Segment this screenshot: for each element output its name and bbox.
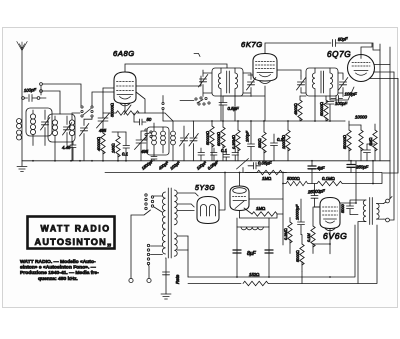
wire 6A8G anode2 diagonal	[136, 92, 145, 113]
wire 6K7G cathode	[223, 86, 265, 121]
wire IFT1 secondary to 6K7G grid	[248, 74, 253, 76]
resistor R 1Mohm avc	[245, 170, 287, 174]
wire output cathode junction	[302, 272, 330, 284]
IFT1 core	[227, 71, 230, 93]
box A RF tuned circuit	[26, 108, 52, 136]
potentiometer 50000ohm	[103, 105, 145, 115]
capacitor C 100pF det2	[198, 148, 205, 161]
switch S2 contacts osc	[145, 129, 152, 140]
capacitor C 0.05	[70, 142, 76, 161]
svg-text:0.1: 0.1	[122, 152, 129, 157]
capacitor C 100pF avc	[248, 121, 255, 161]
wire 6A8G plate to IFT1	[136, 76, 201, 86]
svg-text:495: 495	[99, 128, 107, 133]
svg-text:Produzione 1940-41. — Media fr: Produzione 1940-41. — Media fre-	[20, 270, 99, 276]
ground symbol mains	[161, 294, 171, 299]
svg-text:50000Ω: 50000Ω	[205, 131, 210, 145]
wire bias node	[112, 131, 126, 133]
filter choke L8	[237, 218, 269, 230]
wire heater bus2	[188, 283, 241, 285]
PT primary winding	[162, 192, 165, 254]
IFT1 secondary coil	[235, 68, 238, 96]
variable capacitor 495 section2	[135, 131, 148, 161]
capacitor C 0.1 det	[223, 150, 230, 161]
power transformer T4 core	[168, 188, 171, 258]
antenna coil L1	[17, 119, 22, 141]
svg-text:6K7G: 6K7G	[241, 40, 263, 49]
capacitor C 4uF	[308, 166, 316, 169]
capacitor C 5000 tone	[347, 200, 359, 215]
ground symbol left	[17, 161, 27, 172]
wire hook top	[194, 54, 200, 57]
wire trimmer CT1	[44, 110, 46, 146]
resistor R 1Mohm eye	[252, 212, 283, 216]
IFT2 primary coil	[312, 68, 315, 96]
switch S5 mains contacts	[147, 244, 162, 264]
svg-text:1MΩ: 1MΩ	[368, 138, 373, 146]
resistor R 10000ohm avc	[286, 121, 290, 161]
capacitor C det coupling	[331, 96, 343, 102]
svg-text:350Ω: 350Ω	[257, 139, 262, 148]
coil L3	[52, 116, 57, 161]
wire x283 down	[282, 173, 284, 246]
svg-text:6A8G: 6A8G	[113, 49, 135, 58]
speaker terminals	[384, 197, 393, 222]
wire trimmer CT8	[301, 76, 306, 93]
svg-text:Rete: Rete	[175, 274, 180, 284]
wire PT heater tap	[177, 236, 188, 277]
IF transformer T2 box	[306, 68, 338, 96]
resistor R 50000ohm screen	[210, 121, 214, 161]
wire 6V6G grid	[314, 206, 321, 208]
resistor R 5000ohm fb	[283, 181, 308, 185]
wire IFT2 secondary to 6Q7G	[330, 87, 354, 100]
junction dots bus	[32, 160, 127, 162]
variable capacitor 495 section1	[97, 88, 110, 133]
capacitor C 50pF	[333, 40, 381, 51]
wire fb right corner	[373, 161, 382, 184]
resistor R 152ohm	[243, 225, 377, 286]
wire IFT2 stubs down	[315, 96, 330, 121]
capacitor C 250pF	[347, 165, 355, 168]
capacitor C mains	[163, 272, 170, 275]
resistor R 40000ohm agc	[101, 133, 105, 161]
svg-text:4.45: 4.45	[62, 145, 71, 150]
svg-text:250pF: 250pF	[355, 165, 369, 170]
wire right vertical B	[379, 44, 381, 161]
wire eye grid	[249, 198, 283, 200]
svg-text:6V6G: 6V6G	[323, 231, 347, 241]
svg-text:1MΩ: 1MΩ	[256, 206, 265, 211]
trimmer CT4	[180, 134, 189, 147]
wire 6Q7G diode2	[370, 78, 399, 80]
capacitor C 20uF	[364, 144, 371, 161]
IF transformer T1 box	[212, 68, 243, 96]
svg-text:1MΩ: 1MΩ	[262, 176, 271, 181]
trimmer CT1	[41, 118, 50, 131]
capacitor C 0.5uF	[219, 96, 227, 121]
wire eye top	[239, 173, 241, 187]
oscillator coil box	[147, 127, 169, 155]
band switch contacts S1	[81, 106, 93, 117]
IFT2 secondary coil	[330, 68, 333, 96]
svg-text:4900Ω: 4900Ω	[293, 103, 298, 115]
tube 5Y3G rectifier	[197, 197, 219, 224]
wire choke left down	[236, 227, 238, 277]
ground bus	[22, 160, 390, 162]
trimmer CT5	[189, 134, 198, 147]
svg-text:sinton» e «Autosinton Fono». —: sinton» e «Autosinton Fono». —	[20, 265, 96, 271]
capacitor C 25000pF grid	[311, 184, 320, 208]
capacitor C 8uF b	[265, 250, 273, 253]
capacitor C 50 osc grid	[134, 113, 146, 125]
trimmer CT7	[247, 78, 256, 91]
svg-text:quenza: 450 kHz.: quenza: 450 kHz.	[38, 276, 78, 282]
coil L4 oscillator antenna	[69, 113, 80, 161]
svg-text:5000Ω: 5000Ω	[295, 250, 300, 262]
wire right top nodes	[345, 121, 375, 144]
svg-text:5Y3G: 5Y3G	[195, 185, 215, 192]
svg-text:0.1MΩ: 0.1MΩ	[322, 176, 335, 181]
svg-text:0.25MΩ: 0.25MΩ	[231, 135, 236, 149]
wire OT primary	[356, 200, 366, 284]
capacitor C 0.1 mid	[271, 134, 278, 161]
trimmer CT9	[339, 78, 348, 91]
svg-text:10000Ω: 10000Ω	[281, 135, 286, 149]
switch S4 voltage selector upper	[145, 194, 163, 212]
coil L6 osc tick	[161, 127, 166, 153]
svg-text:4µF: 4µF	[317, 166, 325, 171]
resistor R 10000ohm right	[359, 125, 363, 161]
svg-text:0.5µF: 0.5µF	[228, 106, 239, 111]
svg-text:50000Ω: 50000Ω	[110, 103, 115, 117]
wire right vertical E	[383, 79, 398, 174]
mains terminal N	[147, 265, 151, 283]
trimmer CT6	[199, 75, 208, 88]
wire PT centertap	[165, 258, 168, 294]
switch contacts S3b	[162, 96, 164, 122]
wire 6K7G plate	[277, 70, 301, 76]
trimmer CT8	[297, 78, 306, 91]
wire PT to 5Y3G plate1	[177, 193, 198, 196]
coil L7	[171, 121, 176, 161]
capacitor C 100pF diode	[326, 102, 334, 122]
svg-text:152Ω: 152Ω	[249, 272, 259, 277]
wire B+ bus mid	[193, 120, 345, 122]
tube 6A8G	[114, 72, 136, 106]
capacitor C 8uF a	[233, 250, 241, 253]
svg-text:495: 495	[141, 149, 149, 154]
PT HV secondary	[174, 190, 177, 225]
switch S3 contacts mixer	[180, 97, 210, 105]
IFT1 primary coil	[218, 68, 221, 96]
resistor R 0.25M	[236, 121, 240, 161]
svg-text:0.2MΩ: 0.2MΩ	[283, 228, 288, 240]
wire trimmer CT6	[203, 70, 212, 97]
wire eye cathode	[240, 208, 278, 218]
svg-text:100pF: 100pF	[335, 101, 348, 106]
wire trimmer CT5	[193, 121, 195, 161]
capacitor C 0.05uF af	[248, 163, 261, 170]
svg-text:50pF: 50pF	[338, 36, 349, 42]
resistor R 0.1Mohm tone	[317, 181, 373, 185]
resistor R 5000ohm out	[300, 235, 304, 272]
wire 6V6G cathode	[313, 229, 330, 254]
wire trimmer CT3	[84, 117, 92, 161]
resistor R 50000ohm det	[324, 96, 328, 121]
wire 250pF	[350, 161, 352, 173]
wire trimmer CT2	[66, 116, 68, 146]
junction dots mid	[211, 120, 374, 278]
svg-text:5000Ω: 5000Ω	[287, 176, 300, 181]
wire 4900 top	[300, 95, 306, 97]
wire osc top	[145, 113, 194, 121]
wire trimmer CT7	[243, 73, 251, 97]
tube 6Q7G	[348, 55, 375, 82]
capacitor C padder1	[151, 153, 157, 161]
wire right vertical D	[390, 72, 395, 220]
wire 6V6G plate	[340, 161, 356, 203]
box B RF tuned circuit 2	[48, 114, 75, 142]
wire PT heater tap2	[177, 249, 188, 251]
wire to box B	[43, 91, 61, 114]
wire PT to 5Y3G filament	[177, 204, 194, 207]
svg-text:6Q7G: 6Q7G	[327, 50, 351, 59]
wire PT tap3	[177, 210, 194, 212]
svg-text:100pF: 100pF	[24, 87, 37, 93]
resistor R 0.2Mohm	[288, 218, 292, 254]
capacitor C det3	[211, 148, 218, 161]
svg-text:50000Ω: 50000Ω	[319, 102, 324, 116]
svg-text:WATT RADIO: WATT RADIO	[41, 224, 111, 234]
svg-text:60000Ω: 60000Ω	[216, 132, 221, 146]
wire AVC bus	[105, 172, 382, 174]
svg-text:0.05µF: 0.05µF	[258, 161, 272, 166]
logo box frame	[28, 217, 115, 249]
wire 6A8G osc grid	[92, 92, 114, 106]
output transformer T3	[363, 198, 379, 225]
PT filament secondary	[174, 233, 177, 256]
wire to band switch	[43, 84, 82, 106]
volume potentiometer	[237, 159, 249, 173]
wire 6A8G grid cap to AVC line	[125, 64, 227, 72]
wire 6Q7G diode1	[374, 71, 395, 73]
resistor R 1Mohm right	[373, 124, 377, 161]
svg-text:40000Ω: 40000Ω	[96, 137, 101, 151]
svg-text:10000: 10000	[355, 115, 368, 120]
coil L5 osc	[152, 123, 157, 153]
wire fb node	[308, 183, 317, 185]
svg-text:10000pF: 10000pF	[295, 204, 300, 220]
resistor R 160ohm	[116, 132, 120, 161]
svg-text:50: 50	[147, 117, 152, 122]
wire 6K7G grid cap	[265, 43, 331, 54]
resistor R 4900ohm	[298, 96, 302, 121]
resistor R 350ohm	[262, 121, 266, 161]
capacitor C 100pF antenna	[22, 86, 46, 102]
wire 4uF	[311, 161, 313, 184]
svg-text:8µF: 8µF	[247, 251, 257, 257]
svg-text:0.1: 0.1	[221, 148, 228, 153]
capacitor C 0.1 cathode	[123, 132, 130, 161]
wire 6Q7G plate	[374, 64, 390, 66]
wire choke right down	[268, 227, 270, 277]
magic eye tube	[230, 186, 249, 211]
antenna	[17, 42, 27, 51]
wire IFT1 stubs down	[221, 96, 235, 121]
wire heater bus1	[188, 225, 355, 277]
svg-text:WATT RADIO. — Modello «Auto-: WATT RADIO. — Modello «Auto-	[20, 259, 96, 265]
capacitor C 10000pF	[298, 199, 305, 235]
svg-text:5000: 5000	[340, 204, 345, 213]
svg-text:AUTOSINTON„: AUTOSINTON„	[35, 237, 113, 247]
wire 6A8G signal grid	[103, 87, 114, 89]
trimmer CT3	[80, 124, 89, 137]
tube 6K7G	[253, 54, 277, 84]
svg-text:100pF: 100pF	[345, 92, 358, 97]
svg-text:0.1M: 0.1M	[306, 233, 311, 242]
coil L2	[30, 110, 35, 146]
trimmer CT2	[63, 123, 72, 136]
wire antenna down-lead	[21, 50, 23, 161]
resistor R 50000ohm right	[347, 121, 351, 161]
wire 5Y3G output	[219, 173, 225, 211]
wire 6Q7G grid cap	[361, 44, 372, 55]
svg-text:50000Ω: 50000Ω	[342, 135, 347, 149]
wire OT secondary to speaker	[377, 204, 384, 220]
resistor R 0.1M cathode	[311, 207, 315, 254]
capacitor C det4	[232, 148, 239, 161]
svg-text:160Ω: 160Ω	[111, 144, 116, 153]
wire 6A8G cathode	[124, 104, 126, 114]
wire trimmer CT4	[183, 126, 185, 161]
svg-text:100pF: 100pF	[245, 130, 250, 142]
IFT2 core	[321, 71, 324, 93]
tube 6V6G	[320, 198, 340, 231]
wire trimmer CT9	[338, 73, 343, 97]
node terminal A	[40, 83, 43, 93]
wire right vertical C	[389, 47, 391, 199]
mains terminal L	[129, 210, 151, 283]
resistor R 60000ohm	[221, 121, 225, 161]
